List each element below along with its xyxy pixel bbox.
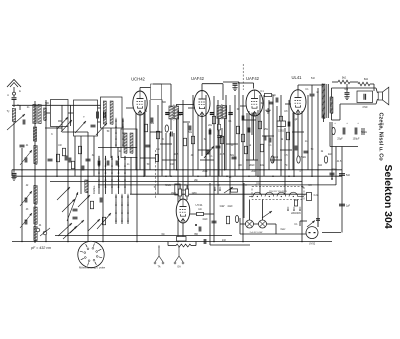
- wire vertical mid: [225, 95, 227, 170]
- wire vertical mid: [246, 113, 248, 170]
- transformer TR1 core: [327, 84, 329, 118]
- capacitor 10nF: [330, 173, 335, 175]
- coil L12: [124, 133, 127, 154]
- capacitor: [207, 150, 209, 155]
- switch contact: [98, 170, 100, 174]
- wire: [331, 113, 333, 120]
- label 0.1: [228, 121, 232, 123]
- label α: [179, 115, 181, 117]
- wire: [254, 223, 259, 225]
- label 41nF: [202, 219, 208, 221]
- junction: [177, 241, 179, 243]
- capacitor: [242, 116, 244, 121]
- wire vertical mid: [192, 95, 194, 176]
- wire: [299, 221, 301, 226]
- switch contact: [105, 170, 107, 174]
- capacitor: [189, 126, 191, 131]
- switch contact: [105, 156, 107, 160]
- box bandfilter outline: [74, 100, 98, 136]
- trimmer arrow: [204, 146, 214, 158]
- label 1n: [127, 164, 130, 166]
- label 2n: [27, 107, 30, 109]
- capacitor: [204, 239, 206, 244]
- wire: [238, 82, 254, 84]
- junction: [157, 184, 158, 185]
- switch contact: [118, 170, 120, 174]
- wire bus 4: [98, 184, 336, 186]
- capacitor C1 antenna series: [12, 98, 17, 100]
- wire block bottom: [330, 146, 358, 148]
- resistor R5: [144, 124, 147, 132]
- capacitor: [104, 112, 106, 119]
- capacitor cathode: [288, 122, 290, 127]
- junction: [301, 241, 303, 243]
- wire contact column: [98, 156, 100, 194]
- wire vertical: [56, 127, 58, 177]
- wire vertical: [136, 157, 138, 242]
- wire: [98, 147, 137, 149]
- label 47nF: [362, 106, 368, 109]
- junction: [205, 175, 207, 177]
- wire: [376, 88, 378, 93]
- label 41nF: [227, 206, 233, 208]
- junction: [67, 169, 69, 171]
- svg-text:SI: SI: [302, 187, 305, 189]
- wire: [373, 84, 375, 91]
- label 7kΩ: [344, 89, 348, 91]
- resistor R22: [332, 127, 335, 134]
- label 0.1: [305, 89, 309, 91]
- resistor R25: [324, 156, 327, 163]
- wire: [224, 119, 226, 171]
- label 47n: [284, 111, 289, 113]
- label 150Ω: [278, 130, 284, 133]
- svg-text:70kΩ: 70kΩ: [300, 157, 306, 159]
- svg-text:5kΩ: 5kΩ: [364, 79, 368, 81]
- wire stub: [280, 149, 292, 151]
- resistor R1: [62, 148, 65, 156]
- junction: [288, 175, 290, 177]
- capacitor C2: [12, 173, 17, 175]
- label MΩ: [182, 189, 186, 192]
- resistor R3 pot: [102, 217, 105, 225]
- switch contact: [219, 187, 221, 191]
- svg-text:GW: GW: [220, 204, 225, 208]
- label GA: [177, 266, 181, 269]
- label 5nF: [346, 174, 351, 177]
- svg-text:1MΩ: 1MΩ: [191, 192, 196, 195]
- resistor R11: [212, 116, 215, 124]
- wire: [98, 107, 101, 109]
- wire vertical: [130, 157, 132, 194]
- svg-text:UAF42: UAF42: [246, 76, 260, 81]
- junction heater tap: [257, 196, 258, 197]
- wire: [13, 100, 15, 107]
- label 1μF: [346, 205, 351, 208]
- label 5nF: [311, 78, 316, 80]
- junction: [170, 175, 172, 177]
- wire: [253, 83, 255, 89]
- switch contact: [98, 184, 100, 188]
- antenna terminal: [13, 92, 16, 95]
- antenna: [7, 80, 21, 88]
- wire: [190, 213, 197, 215]
- switch arm S1c: [75, 121, 86, 133]
- switch contact: [122, 136, 124, 140]
- wire contact column: [122, 119, 124, 147]
- svg-text:pF = 432 cm: pF = 432 cm: [30, 246, 51, 250]
- wire: [331, 88, 333, 97]
- wire V1 cathode: [139, 114, 141, 170]
- label 0.2A: [314, 194, 319, 197]
- label 20nF: [249, 165, 255, 167]
- wire: [13, 95, 15, 97]
- capacitor: [304, 151, 309, 153]
- wire vertical mid: [288, 100, 290, 170]
- switch arm S2f: [62, 199, 75, 212]
- shield dashed line: [155, 150, 157, 199]
- wire: [170, 119, 172, 130]
- wire stub: [244, 119, 256, 121]
- dial lamp La1: [246, 220, 254, 228]
- label 70kΩ: [300, 157, 306, 159]
- label 2kΩ: [318, 165, 322, 167]
- svg-text:UAF42: UAF42: [191, 76, 205, 81]
- svg-text:25μF: 25μF: [337, 138, 343, 141]
- wire: [218, 119, 220, 125]
- capacitor: [98, 161, 100, 166]
- switch contact: [124, 184, 126, 188]
- label voltage selector: [291, 213, 301, 215]
- fuse SI 0.2A: [307, 193, 312, 201]
- capacitor: [65, 156, 67, 161]
- dashed box heater: [252, 187, 304, 200]
- junction: [272, 175, 274, 177]
- wire vertical mid: [263, 95, 265, 176]
- resistor: [71, 161, 74, 169]
- wire vertical: [67, 127, 69, 242]
- wire V3 cathode: [253, 113, 255, 161]
- resistor R18: [279, 116, 282, 124]
- capacitor: [199, 227, 201, 232]
- wire vertical mid: [234, 95, 236, 176]
- wire: [176, 119, 178, 170]
- switch contact: [293, 207, 295, 211]
- label mains plug: [309, 243, 316, 246]
- wire stub: [160, 143, 172, 145]
- coil L3 RF coupled: [38, 105, 41, 124]
- label T: [83, 117, 85, 119]
- svg-text:41nF: 41nF: [227, 206, 233, 208]
- junction: [184, 184, 185, 185]
- label 300: [238, 165, 243, 167]
- wire bus 5: [130, 193, 312, 195]
- capacitor: [82, 166, 84, 171]
- switch arm S2b: [63, 226, 77, 239]
- wire: [179, 197, 181, 200]
- switch contact: [105, 163, 107, 167]
- IF transformer T2 core: [221, 104, 223, 120]
- wire: [195, 242, 197, 246]
- junction: [331, 178, 333, 180]
- coil T1 secondary: [175, 106, 179, 119]
- junction: [242, 169, 244, 171]
- wire bus bottom: [12, 241, 332, 243]
- switch arm S1d: [96, 123, 107, 135]
- wire grid stub: [188, 107, 195, 109]
- switch contact: [115, 218, 117, 222]
- wire: [168, 245, 176, 247]
- capacitor: [151, 118, 153, 123]
- label 25k: [264, 129, 269, 131]
- wire: [222, 84, 224, 100]
- svg-text:20nF: 20nF: [251, 171, 257, 173]
- wire vertical: [110, 128, 112, 158]
- junction: [21, 169, 22, 170]
- label 5kΩ: [342, 77, 347, 80]
- wire stub: [292, 131, 304, 133]
- wire right drop: [341, 147, 343, 233]
- wire vertical mid: [272, 95, 274, 163]
- wire: [70, 105, 72, 126]
- switch contact: [98, 163, 100, 167]
- wire: [335, 147, 337, 186]
- svg-text:2kΩ: 2kΩ: [328, 154, 332, 156]
- wire: [311, 96, 313, 176]
- wire vertical mid: [173, 133, 175, 170]
- coil L6 MW: [34, 146, 37, 165]
- junction: [130, 184, 131, 185]
- label 50p: [272, 95, 277, 97]
- wire: [275, 224, 277, 234]
- capacitor: [171, 132, 173, 137]
- dial lamp La2: [259, 220, 267, 228]
- capacitor: [116, 161, 118, 166]
- wire section left: [209, 183, 211, 245]
- wire bus 2: [12, 175, 342, 177]
- svg-text:UCH42: UCH42: [131, 77, 145, 82]
- wire: [167, 242, 169, 246]
- capacitor: [146, 145, 151, 147]
- label 2kΩ: [328, 154, 332, 156]
- label 10n: [156, 149, 161, 151]
- label 70: [285, 165, 288, 167]
- junction: [248, 175, 250, 177]
- junction: [280, 169, 282, 171]
- label 300: [162, 102, 167, 104]
- label 2k: [145, 111, 148, 113]
- wire vertical mid: [165, 133, 167, 170]
- wire vertical mid: [182, 100, 184, 199]
- svg-text:TRU 127 150 220V: TRU 127 150 220V: [269, 191, 287, 193]
- svg-text:1MΩ: 1MΩ: [171, 192, 176, 195]
- junction heater tap: [293, 196, 294, 197]
- svg-text:Drehko: Drehko: [92, 185, 96, 194]
- wire: [204, 213, 215, 215]
- resistor R29: [197, 212, 204, 215]
- label 0.1: [260, 90, 264, 93]
- svg-text:Czeija, Nissl u. Co: Czeija, Nissl u. Co: [378, 113, 384, 162]
- switch contact: [122, 118, 124, 122]
- wire: [45, 100, 47, 242]
- label pF = 432 cm: [30, 246, 51, 250]
- label Netz: [281, 228, 287, 231]
- wire vertical mid: [292, 113, 294, 171]
- wire: [186, 185, 188, 189]
- wire vertical mid: [213, 96, 215, 242]
- switch arm S2c: [70, 220, 84, 233]
- label Czeija, Nissl u. Co: [378, 113, 384, 162]
- coil T1 primary: [169, 106, 173, 119]
- wire V1 pin: [135, 113, 137, 170]
- junction: [245, 184, 246, 185]
- wire: [140, 87, 151, 89]
- switch arm power: [307, 221, 315, 228]
- wire: [267, 223, 277, 225]
- switch contact: [111, 163, 113, 167]
- wire stub: [198, 149, 210, 151]
- switch contact: [115, 118, 117, 122]
- label Drehko rotated: [92, 185, 96, 194]
- label UL41: [291, 75, 302, 80]
- label lamps: [250, 231, 264, 234]
- junction: [87, 175, 89, 177]
- switch contact: [127, 194, 129, 198]
- coil T2 secondary: [223, 106, 227, 119]
- wire grid stub: [285, 103, 291, 105]
- capacitor: [73, 209, 78, 211]
- switch contact: [111, 177, 113, 181]
- label 50: [311, 149, 314, 151]
- connector GA jack: [174, 248, 184, 264]
- junction: [161, 169, 163, 171]
- wire lamp lead: [262, 200, 264, 221]
- capacitor 50uF electrolytic: [355, 128, 357, 135]
- wire vertical mid: [255, 113, 257, 177]
- capacitor: [107, 161, 109, 166]
- wire: [350, 81, 358, 83]
- wire: [370, 83, 374, 85]
- svg-text:UY92: UY92: [309, 243, 316, 246]
- label 0.5: [284, 155, 288, 157]
- label 10nF: [331, 168, 337, 171]
- capacitor: [209, 130, 211, 135]
- coil filter choke: [176, 244, 191, 247]
- switch contact: [118, 177, 120, 181]
- label 43: [26, 209, 29, 211]
- label MW: [58, 121, 63, 123]
- wire vertical: [80, 136, 82, 194]
- label 350: [194, 234, 199, 236]
- capacitor: [269, 138, 271, 143]
- svg-text:2×6.3V 0.3W: 2×6.3V 0.3W: [250, 231, 264, 234]
- capacitor: [276, 98, 278, 103]
- label 2nF: [222, 240, 227, 242]
- label 60: [237, 109, 240, 111]
- switch contact: [111, 156, 113, 160]
- wire V3 pin: [257, 110, 259, 176]
- wire lamp return: [240, 233, 306, 235]
- wire: [98, 121, 101, 123]
- label 50: [147, 164, 150, 166]
- label K: [51, 134, 53, 136]
- svg-text:Selekton 304: Selekton 304: [382, 165, 394, 229]
- label Selekton 304: [382, 165, 394, 229]
- capacitor tone 4.7nF: [364, 94, 366, 100]
- label TA: [158, 266, 161, 269]
- wire top rail a: [153, 83, 171, 85]
- junction: [213, 169, 215, 171]
- label 44: [39, 225, 42, 227]
- switch contact: [111, 170, 113, 174]
- junction: [217, 184, 218, 185]
- wire to speaker return: [340, 103, 376, 105]
- capacitor padder: [25, 220, 27, 225]
- capacitor: [216, 146, 221, 148]
- wire to V2 grid: [177, 104, 200, 106]
- capacitor 100uF electrolytic: [362, 128, 364, 135]
- svg-text:2nF: 2nF: [222, 240, 227, 242]
- label 0.1: [268, 145, 272, 147]
- label SI: [302, 187, 305, 189]
- switch contact: [124, 170, 126, 174]
- junction: [284, 184, 285, 185]
- wire antenna lead: [13, 87, 15, 92]
- svg-text:5nF: 5nF: [346, 174, 351, 177]
- coil L13: [130, 133, 133, 154]
- resistor R34: [260, 144, 263, 152]
- wire vertical mid: [161, 100, 163, 177]
- ground: [344, 95, 349, 100]
- wire: [311, 85, 313, 94]
- switch arm S2g: [78, 195, 90, 207]
- wire: [182, 223, 184, 237]
- wire vertical mid: [169, 133, 171, 176]
- wire vertical: [117, 147, 119, 158]
- resistor R33: [235, 215, 238, 222]
- wire stub: [140, 157, 155, 159]
- resistor R30: [231, 189, 238, 192]
- switch contact: [124, 163, 126, 167]
- junction: [136, 241, 138, 243]
- coil L10 osc in box: [103, 101, 106, 125]
- junction: [317, 169, 319, 171]
- switch contact: [122, 124, 124, 128]
- wire: [44, 112, 50, 114]
- wire: [239, 218, 241, 234]
- svg-text:1μF: 1μF: [346, 205, 351, 208]
- wire antenna to ground cap: [13, 122, 15, 173]
- capacitor T2 right: [228, 113, 232, 115]
- switch lever long: [67, 192, 78, 221]
- wire: [178, 247, 180, 248]
- label 500: [45, 103, 50, 105]
- label LW: [58, 145, 62, 147]
- label UY41: [196, 203, 203, 207]
- wire contact column: [127, 195, 129, 224]
- wire V2 pin: [205, 113, 207, 176]
- coil L14: [85, 180, 88, 193]
- wire V1 pin: [143, 112, 145, 176]
- label A: [7, 94, 9, 97]
- junction: [259, 169, 261, 171]
- resistor R23: [271, 156, 274, 163]
- label 3n: [92, 155, 95, 157]
- svg-text:6Ω: 6Ω: [162, 234, 165, 236]
- switch arm mains: [262, 211, 272, 218]
- wire: [45, 127, 62, 129]
- wire vertical mid: [268, 100, 270, 170]
